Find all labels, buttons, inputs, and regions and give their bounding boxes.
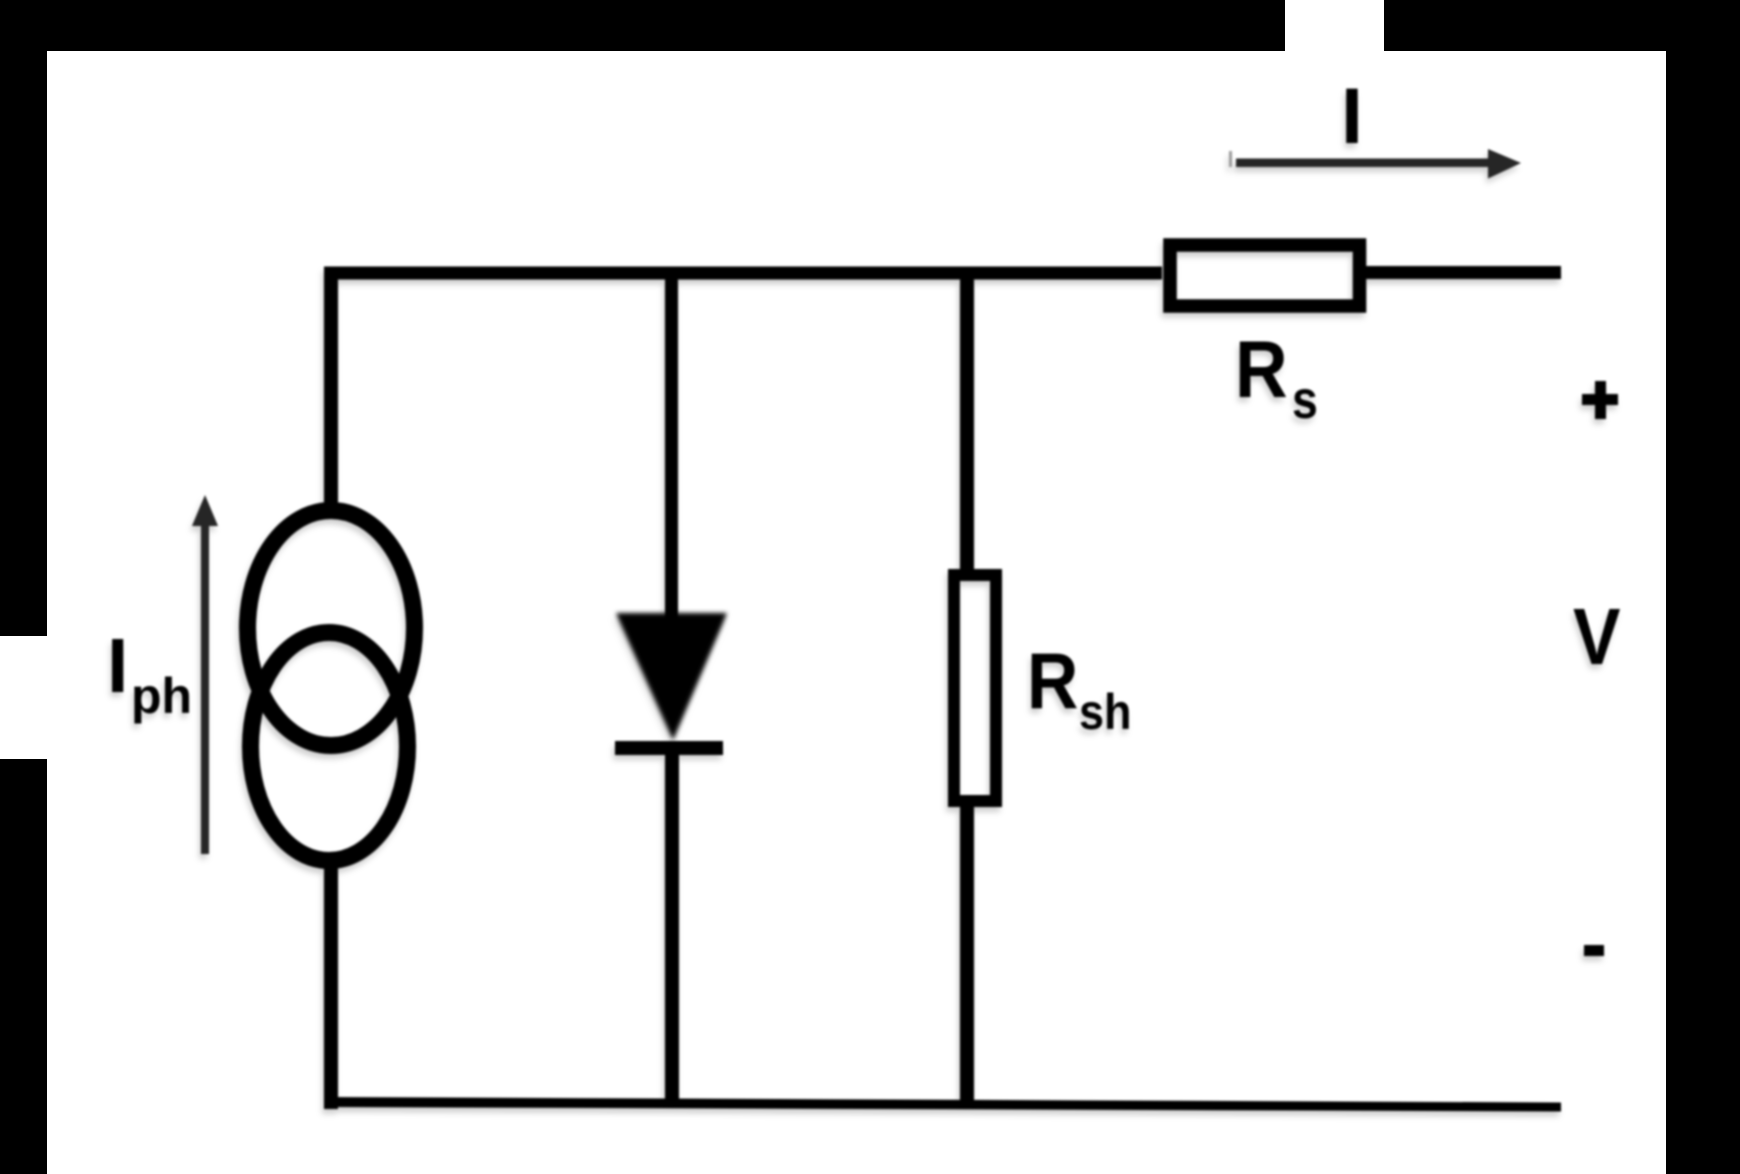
svg-text:V: V xyxy=(1573,592,1620,682)
svg-text:sh: sh xyxy=(1079,685,1132,741)
terminal label + xyxy=(1582,381,1618,419)
svg-text:I: I xyxy=(107,623,128,709)
wire: left branch vertical from top bus to current source xyxy=(324,267,338,510)
wire: output lead right of Rs xyxy=(1366,266,1561,279)
label Rs xyxy=(1235,324,1318,429)
arrow of current source Iph xyxy=(192,495,218,854)
current source Iph circle 1 xyxy=(248,511,415,746)
wire: Rsh lead from top bus xyxy=(960,267,974,570)
wire: from current source bottom to bottom bus xyxy=(324,862,338,1109)
resistor Rsh body xyxy=(954,575,996,801)
svg-text:R: R xyxy=(1235,324,1288,414)
current source Iph circle 2 xyxy=(251,633,408,861)
diode D1 triangle (anode) xyxy=(616,613,727,740)
wire: diode cathode lead to bottom bus xyxy=(665,755,679,1107)
svg-text:s: s xyxy=(1292,369,1318,430)
arrow for current I xyxy=(1229,149,1521,179)
wire: diode anode lead from top bus xyxy=(665,267,678,620)
wire: top bus from node A to Rs xyxy=(324,267,1162,280)
wire: bottom bus xyxy=(324,1097,1561,1112)
diode D1 cathode bar xyxy=(615,741,723,755)
label Rsh xyxy=(1027,637,1132,741)
resistor Rs body xyxy=(1170,245,1360,306)
wire: Rsh bottom lead to bottom bus xyxy=(960,807,974,1107)
svg-text:ph: ph xyxy=(131,668,192,724)
svg-text:R: R xyxy=(1027,637,1078,725)
label Iph xyxy=(107,623,192,724)
svg-text:I: I xyxy=(1341,71,1363,160)
terminal label - xyxy=(1584,945,1604,956)
